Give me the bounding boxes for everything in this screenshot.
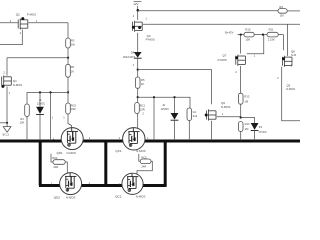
power MOSFET QC2 [122,173,143,194]
pin 1 of Q4 gate [145,17,147,21]
resistor R9 [278,9,287,14]
pin 1 left of QC2 [118,182,120,186]
svg-text:J2: J2 [162,103,165,107]
label B+42V [225,31,234,35]
node B-12 junction [6,122,8,124]
svg-text:N-MOS: N-MOS [136,149,145,153]
pin 1 left of QD1 [53,137,55,141]
bus negative rail [0,140,300,143]
diode D4 [134,52,142,58]
pin 1 right of QC1 [147,136,149,140]
pin 2 below Q8 [277,76,279,80]
svg-text:R02: R02 [52,156,57,160]
wire port to node [137,6,139,11]
transistor Q1 [1,75,11,88]
wire Q6 source to bus [211,121,213,140]
wire Q8 source down and out [282,67,300,121]
svg-text:R5: R5 [141,78,145,82]
wire top of left rail [67,23,69,38]
pin 2 below Q7 [235,70,237,74]
pin 1 on branch [52,116,54,120]
label part number of D4 [123,56,136,59]
wire branch to bus [50,92,52,139]
svg-text:Q7: Q7 [222,53,226,57]
label R02 [52,156,58,169]
wire BC1 to QC1 drain [137,114,139,129]
pin 2 label below Q2 [20,31,22,35]
pin 1 of Q2 [36,19,38,23]
label Q6 [221,101,225,105]
svg-text:R12: R12 [244,94,249,98]
label 17VDC of Z3 [258,130,266,134]
label 12VDC of J2 [161,107,169,111]
transistor Q6 [205,109,216,120]
svg-text:N-MOS: N-MOS [13,83,22,87]
svg-text:R13: R13 [245,122,250,126]
pin 1 on Q7 gate wire [254,53,256,57]
svg-text:N-MOS: N-MOS [286,87,295,91]
node bus R13 [240,140,242,142]
label J1 [39,98,42,102]
wire to zener D2 [174,97,176,113]
wire node to Q4 [137,11,139,20]
wire rail to R5 [137,70,139,77]
wire R3 to node [67,48,69,58]
resistor RC2 [140,159,151,164]
resistor R4 [25,104,30,117]
label Q2 [16,13,20,17]
node mid-left junction [67,91,69,93]
resistor R13 [238,122,243,132]
wire Q7 source down to R12 [240,66,242,93]
label Q8 [291,50,295,54]
resistor R3 [66,38,71,48]
bus vertical link centre [104,141,107,186]
svg-text:10K: 10K [20,121,25,125]
transistor Q8 [282,56,292,67]
svg-text:3u3: 3u3 [193,114,198,118]
wire branch154 to bus [153,97,155,139]
label P-MOS of Q4 [146,37,155,41]
wire R02 to QD2 drain [65,162,67,173]
label C2 [193,110,198,118]
wire driver row [238,34,284,36]
label R11 [268,27,275,41]
node zener D1 top [39,91,41,93]
label R5 [141,78,145,86]
pin 2 above Q4 [133,14,135,18]
label R4 [20,117,25,125]
wire corner down to R4 [26,92,28,104]
wire R4 to bus [26,117,28,140]
supply wire to right edge [287,10,300,12]
wire RC2 to QC2 drain [137,161,152,174]
wire RC2 left stub [139,154,140,162]
node bus R4 [26,140,28,142]
svg-text:R9: R9 [279,5,283,9]
label RC0 [71,103,77,111]
label N-MOS of Q9 [286,87,295,91]
wire down to zener D1 [39,92,41,106]
svg-text:BC1: BC1 [140,103,146,107]
label D4 [131,50,135,54]
resistor R10 [244,32,254,37]
transistor Q4 [132,21,142,32]
pin 1 right of QD1 [89,136,91,140]
svg-text:Z3: Z3 [259,125,263,129]
wire port to left edge [0,122,7,124]
resistor R12 [238,93,243,104]
wire row corner down to Q8 gate [283,35,285,51]
resistor R02 [53,160,65,165]
svg-text:N-MOS: N-MOS [66,195,75,199]
svg-text:R10: R10 [245,27,250,31]
resistor RC0 [66,103,71,114]
node bus 154 [153,140,155,142]
wire C2 to bus [188,121,190,140]
wire rail to BC1 [137,97,139,102]
svg-text:QC1: QC1 [115,149,122,153]
label N-M of Q8 [291,53,296,57]
wire long gate line to Q6 drain corner [138,70,212,105]
node supply junction [137,9,140,12]
svg-text:N-MOS: N-MOS [136,195,145,199]
node Q6 gate junction [240,116,242,118]
label RC2 [141,156,147,169]
svg-text:P-MOS: P-MOS [146,37,155,41]
label R12 [244,94,249,103]
wire rail to RC0 [67,92,69,103]
label QC1 [115,149,145,153]
wire D3 to bus [254,131,256,140]
svg-text:R3: R3 [71,39,75,43]
svg-text:Q9: Q9 [286,83,290,87]
svg-text:Q2: Q2 [16,13,20,17]
svg-text:17VDC: 17VDC [258,130,266,134]
svg-text:Q8: Q8 [291,50,295,54]
supply wire y10.7 left part [138,10,278,12]
wire gate node to zener D3 [241,118,255,124]
label Q1 [13,79,17,83]
svg-text:J1: J1 [39,98,42,102]
wire Q2 source down and left to edge [0,30,22,45]
pin 2 above Q1 [3,71,5,75]
wire Q7 drain up [240,35,242,54]
svg-text:N-MOS: N-MOS [221,105,230,109]
pin 1 below Q1 [9,91,11,95]
svg-text:QD2: QD2 [54,195,61,199]
svg-text:1K: 1K [141,82,144,86]
zener D1 [36,107,44,115]
label B-1.2 [3,133,10,137]
node bus D3 [254,140,256,142]
wire R13 to bus [240,132,242,140]
node gate-line junction [137,69,139,71]
zener D2 [171,113,179,120]
label P-MOS of Q2 [27,13,36,17]
wire R12 to gate node [240,104,242,117]
svg-text:R6: R6 [71,65,75,69]
power MOSFET QD2 [60,173,82,195]
wire mid-left horizontal [27,91,68,93]
label P-MOS of Q7 [218,58,227,62]
bus lower rail [39,184,167,187]
power MOSFET QC1 [123,128,145,150]
wire Q2 drain to node at x68 [28,22,68,24]
node bus branch 50 [49,140,51,142]
svg-text:N-MOS: N-MOS [67,151,76,155]
label Q4 [147,34,151,38]
svg-text:RC0: RC0 [71,103,77,107]
wire D2 to bus [174,120,176,139]
label R13 [245,122,250,131]
svg-text:C2: C2 [193,110,197,114]
node bus D2 [173,140,175,142]
power MOSFET QD1 [61,128,83,150]
svg-text:B+42V: B+42V [225,31,234,35]
label R3 [71,39,75,47]
zener D3 [251,123,259,131]
wire mid node down to Q7 gate line [247,35,264,54]
svg-text:R11: R11 [269,27,274,31]
resistor R11 [267,32,278,37]
pin 1 below RC0 [63,116,65,120]
wire D4 to node [137,58,139,69]
port symbol B-1.2 [3,123,11,132]
label J2 [162,103,165,107]
wire box top from Q1 branch [7,57,68,59]
resistor R5 [135,77,140,88]
wire RC0 to QD1 drain [68,114,72,128]
svg-text:12VDC: 12VDC [37,102,45,106]
label BC1 [140,103,146,111]
wire rail between nodes [67,58,69,65]
svg-text:RC2: RC2 [141,156,147,160]
pin 1 left of QC1 [119,136,121,140]
svg-text:QD1: QD1 [57,151,64,155]
svg-text:1K: 1K [71,69,74,73]
label R10 [245,27,250,41]
svg-text:12V: 12V [133,2,138,6]
node zener D2 top [173,96,175,98]
svg-text:24R: 24R [53,165,58,169]
label Q7 [222,53,226,57]
wire R02 left stub [51,154,53,162]
svg-text:N-M: N-M [291,53,296,57]
label QC2 [115,195,145,199]
svg-text:12VDC: 12VDC [161,107,169,111]
resistor BC1 [135,103,140,114]
pin 1 right of QD2 [89,181,91,185]
capacitor C2 [187,108,192,121]
bus vertical link right [164,141,167,186]
transistor Q7 [235,55,245,66]
wire Q1 to port node [6,87,8,123]
label R9 [279,5,284,18]
power port 12V [133,2,141,7]
pin 2 below BC1 [142,111,144,115]
wire R5 to node2 [137,88,139,97]
svg-text:15K: 15K [245,38,250,42]
svg-text:2N43-04TS: 2N43-04TS [123,56,136,59]
wire Q4 to D4 [137,33,139,52]
svg-text:P-MOS: P-MOS [27,13,36,17]
svg-text:2.15K: 2.15K [268,38,275,42]
pin 1 of Q8 [291,63,293,67]
resistor R6 [66,64,71,77]
node clamp junction [137,96,139,98]
node bus Q6 [210,140,212,142]
pin 2 of Q2 [10,19,12,23]
node mid driver [262,34,264,36]
wire clamp rail horizontal [138,97,190,108]
bus vertical link left [39,141,42,186]
label QD2 [54,195,76,199]
wire box left down to Q1 [6,58,8,76]
label N-MOS of Q6 [221,105,230,109]
node cap branch [49,91,51,93]
svg-text:QC2: QC2 [115,195,122,199]
node Q7 drain [240,34,242,36]
pin 1 below D4 [133,63,135,67]
label Z3 [259,125,263,129]
gate wire of Q6 [217,116,241,118]
pin 1 left of QD2 [51,182,53,186]
svg-text:10R: 10R [140,107,145,111]
pin 1 of Q6 [222,112,224,116]
node branch 154 [153,96,155,98]
svg-text:P-MOS: P-MOS [218,58,227,62]
label QD1 [57,151,76,155]
svg-text:R4: R4 [20,117,24,121]
svg-text:10R: 10R [71,107,76,111]
wire gate of Q2 from left edge [0,22,18,24]
node bus C2 [188,140,190,142]
wire R6 to mid node [67,77,69,92]
svg-text:24R: 24R [141,164,146,168]
wire D1 to bus [39,115,41,140]
transistor Q2 [18,17,28,30]
svg-text:B-1.2: B-1.2 [3,133,10,137]
node left-box junction [67,57,69,59]
label R6 [71,65,75,73]
label N-MOS of Q1 [13,83,22,87]
label Q9 [286,83,290,87]
wire Q8 drain from long line [287,24,289,56]
gate wire of Q4 long line [143,23,300,25]
label 12VDC of J1 [37,102,45,106]
